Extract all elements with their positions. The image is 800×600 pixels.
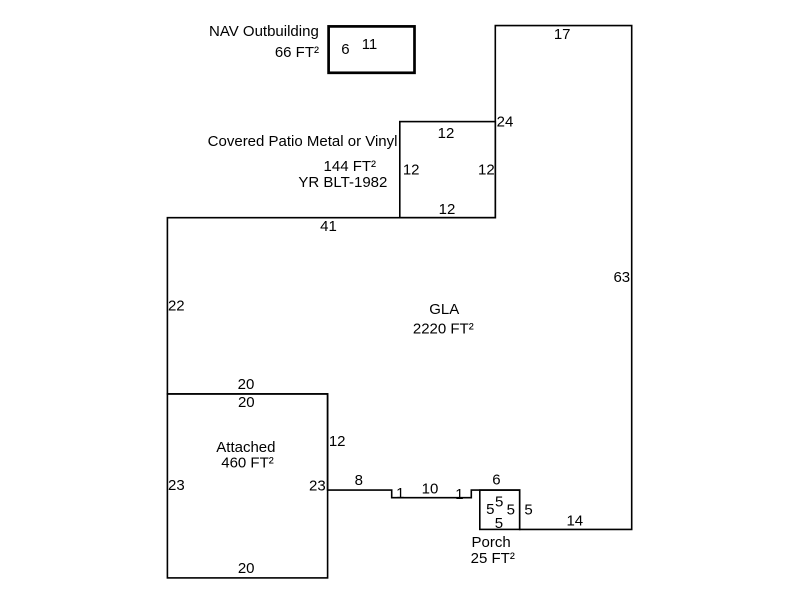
svg-text:GLA: GLA — [429, 301, 459, 318]
svg-text:11: 11 — [362, 36, 378, 53]
svg-text:144 FT²: 144 FT² — [324, 158, 377, 175]
svg-text:17: 17 — [554, 26, 571, 43]
svg-text:5: 5 — [486, 501, 494, 518]
svg-text:20: 20 — [238, 560, 255, 577]
svg-text:6: 6 — [341, 41, 349, 58]
Covered patio rectangle — [400, 122, 496, 218]
GLA outline (main dwelling perimeter) — [167, 26, 631, 530]
svg-text:20: 20 — [238, 394, 255, 411]
svg-text:5: 5 — [524, 502, 532, 519]
Porch rectangle — [480, 490, 520, 529]
svg-text:5: 5 — [507, 501, 515, 518]
svg-text:22: 22 — [168, 297, 185, 314]
svg-text:63: 63 — [613, 269, 630, 286]
svg-text:6: 6 — [492, 472, 500, 489]
svg-text:23: 23 — [168, 477, 185, 494]
svg-text:12: 12 — [478, 162, 495, 179]
svg-text:NAV Outbuilding: NAV Outbuilding — [209, 23, 319, 40]
svg-text:1: 1 — [396, 485, 404, 502]
svg-text:1: 1 — [455, 486, 463, 503]
svg-text:5: 5 — [495, 494, 503, 511]
svg-text:12: 12 — [403, 162, 420, 179]
svg-text:460 FT²: 460 FT² — [221, 455, 274, 472]
svg-text:12: 12 — [439, 201, 456, 218]
svg-text:2220 FT²: 2220 FT² — [413, 320, 474, 337]
svg-text:12: 12 — [438, 125, 455, 142]
svg-text:5: 5 — [495, 515, 503, 532]
svg-text:YR BLT-1982: YR BLT-1982 — [298, 174, 387, 191]
svg-text:14: 14 — [566, 512, 583, 529]
svg-text:8: 8 — [355, 472, 363, 489]
svg-text:Porch: Porch — [472, 534, 511, 551]
svg-text:66 FT²: 66 FT² — [275, 44, 319, 61]
NAV outbuilding rectangle (thick border) — [329, 26, 415, 72]
svg-text:Covered Patio Metal or Vinyl: Covered Patio Metal or Vinyl — [208, 133, 398, 150]
svg-text:41: 41 — [320, 218, 337, 235]
svg-text:23: 23 — [309, 477, 326, 494]
svg-text:12: 12 — [329, 433, 346, 450]
svg-text:24: 24 — [497, 113, 514, 130]
svg-text:20: 20 — [238, 376, 255, 393]
svg-text:25 FT²: 25 FT² — [471, 550, 515, 567]
svg-text:10: 10 — [422, 480, 439, 497]
Attached garage rectangle — [167, 394, 327, 578]
